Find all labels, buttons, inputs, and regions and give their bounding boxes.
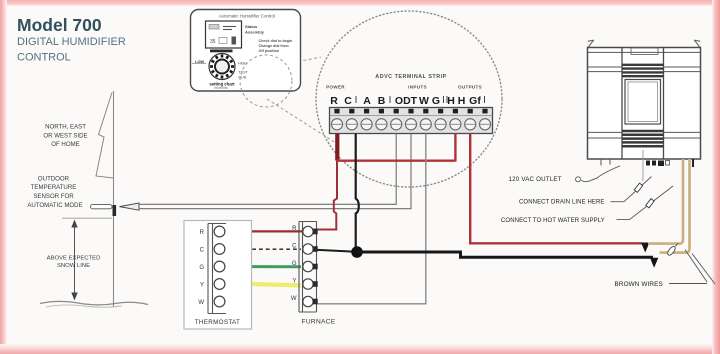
svg-text:THERMOSTAT: THERMOSTAT: [195, 319, 240, 326]
svg-text:A: A: [363, 95, 371, 107]
svg-text:C: C: [344, 95, 352, 107]
border frame top: [0, 0, 720, 6]
svg-text:G: G: [292, 261, 297, 267]
svg-text:Assembly: Assembly: [245, 30, 265, 35]
svg-text:ODT: ODT: [395, 95, 418, 107]
svg-text:C: C: [292, 244, 297, 250]
label north east west: [43, 124, 87, 148]
svg-text:CONNECT TO HOT WATER SUPPLY: CONNECT TO HOT WATER SUPPLY: [501, 218, 605, 224]
svg-text:Status: Status: [245, 24, 258, 29]
border frame bottom: [0, 344, 720, 354]
wire G green: [225, 265, 301, 268]
svg-text:W: W: [419, 95, 429, 107]
svg-text:Automatic Humidifier Control: Automatic Humidifier Control: [219, 14, 275, 19]
humidifier center panel: [625, 80, 661, 125]
zoom leader line lower: [267, 99, 336, 143]
border frame left: [0, 0, 7, 354]
thermostat screws: [214, 226, 225, 307]
svg-text:TEST: TEST: [239, 71, 249, 75]
terminal screws: [331, 119, 490, 130]
thermostat box: [184, 221, 252, 330]
terminal clamps: [334, 109, 487, 114]
svg-text:OUTPUTS: OUTPUTS: [458, 85, 482, 90]
zoom leader line upper: [271, 57, 321, 67]
device dial: [192, 62, 206, 64]
svg-text:more info: more info: [214, 86, 228, 90]
sensor wall anchor: [113, 205, 117, 216]
svg-text:ABOVE EXPECTED: ABOVE EXPECTED: [47, 255, 101, 261]
svg-text:35: 35: [210, 39, 216, 45]
svg-text:W: W: [291, 296, 297, 302]
svg-text:LOW: LOW: [195, 60, 204, 64]
svg-text:BROWN WIRES: BROWN WIRES: [615, 281, 663, 288]
svg-text:OF HOME: OF HOME: [51, 141, 79, 148]
label outdoor sensor: [27, 176, 82, 209]
snow line dimension: [62, 217, 112, 219]
svg-text:W: W: [198, 300, 204, 306]
svg-text:FURNACE: FURNACE: [302, 319, 336, 326]
wire R to furnace: [311, 161, 337, 230]
svg-text:R: R: [200, 230, 205, 236]
wire R thermostat-furnace: [225, 230, 312, 232]
power cord: [581, 166, 620, 182]
furnace screws: [303, 226, 313, 306]
wire W gray: [317, 134, 426, 304]
svg-text:G: G: [199, 265, 204, 271]
house wall: [113, 91, 115, 307]
wire Y yellow: [225, 283, 301, 285]
humidifier control U1 (device): [191, 10, 301, 108]
drain flag: [634, 183, 642, 192]
brown wire 2: [660, 159, 690, 253]
ground line: [40, 301, 148, 305]
svg-text:120 VAC OUTLET: 120 VAC OUTLET: [509, 176, 562, 183]
screw slots: [332, 123, 491, 125]
svg-text:TEMPERATURE: TEMPERATURE: [31, 184, 77, 191]
device zoom circle: [240, 55, 292, 107]
terminal strip TB1: [330, 108, 493, 134]
wire splice: [666, 241, 679, 256]
brown wires leader 2: [692, 254, 715, 285]
red wire arrowhead: [641, 243, 650, 253]
svg-text:OR WEST SIDE: OR WEST SIDE: [43, 132, 87, 139]
svg-text:CONNECT DRAIN LINE HERE: CONNECT DRAIN LINE HERE: [519, 200, 605, 206]
svg-text:OUTDOOR: OUTDOOR: [38, 176, 70, 183]
wire H jumper rise: [454, 134, 456, 162]
svg-text:CONTROL: CONTROL: [17, 52, 71, 64]
brown wire 1: [648, 159, 683, 244]
furnace letters: [291, 226, 297, 302]
brown wires leader 1: [685, 250, 707, 283]
water flag: [646, 199, 654, 208]
wire C furnace to junction: [313, 250, 353, 252]
black wire arrowhead: [650, 258, 658, 268]
terminal letters: [330, 95, 481, 107]
svg-text:POWER: POWER: [326, 85, 345, 90]
svg-text:SNOW LINE: SNOW LINE: [57, 263, 90, 269]
zoom circle (ADVC terminal strip bubble): [316, 11, 502, 187]
wall break marks: [96, 93, 114, 179]
svg-text:H: H: [458, 95, 466, 107]
humidifier drain stubs: [600, 159, 602, 166]
svg-text:NORTH, EAST: NORTH, EAST: [45, 124, 86, 131]
ODT wire 1: [139, 134, 397, 205]
svg-text:AUTOMATIC MODE: AUTOMATIC MODE: [27, 202, 82, 209]
junction node: [351, 246, 363, 258]
svg-text:Y: Y: [292, 279, 296, 285]
humidifier top band: [622, 65, 664, 76]
separator ticks: [356, 96, 485, 103]
svg-text:INPUTS: INPUTS: [408, 85, 427, 90]
furnace clamps: [313, 229, 318, 305]
thermostat letters: [198, 230, 204, 306]
thermostat terminal bar: [207, 224, 209, 314]
svg-text:DIGITAL HUMIDIFIER: DIGITAL HUMIDIFIER: [17, 36, 126, 48]
svg-text:Change dial from: Change dial from: [259, 44, 290, 48]
border frame right: [712, 0, 720, 354]
svg-text:R: R: [292, 226, 297, 232]
humidifier terminal block: [646, 161, 664, 167]
device display: [206, 21, 242, 48]
humidifier lower band: [622, 131, 664, 146]
svg-text:B: B: [378, 95, 386, 107]
furnace terminal bar: [299, 222, 317, 313]
svg-text:Off position: Off position: [259, 49, 280, 53]
svg-text:G: G: [432, 95, 440, 107]
humidifier unit: [588, 40, 701, 159]
wire C to humidifier: [357, 252, 654, 257]
svg-text:ADVC TERMINAL STRIP: ADVC TERMINAL STRIP: [375, 74, 446, 80]
wire R-H jumper horizontal: [336, 159, 455, 161]
svg-text:Check dial to begin: Check dial to begin: [259, 39, 294, 43]
svg-text:HIGH: HIGH: [238, 62, 247, 66]
ODT wire 2: [139, 134, 412, 209]
svg-text:Gf: Gf: [469, 95, 481, 107]
wire H to humidifier red: [470, 134, 642, 244]
wire C dashed thermostat-furnace: [225, 248, 301, 250]
wire R jumper drop (thick): [335, 134, 339, 161]
svg-text:R: R: [330, 95, 338, 107]
label snow line: [47, 255, 101, 269]
svg-text:Model 700: Model 700: [17, 15, 102, 35]
svg-text:H: H: [447, 95, 455, 107]
svg-text:SENSOR FOR: SENSOR FOR: [33, 193, 74, 200]
wire C drop with hop: [356, 134, 359, 248]
ODT wire arrowhead: [120, 203, 140, 210]
outdoor temperature sensor: [91, 205, 113, 209]
svg-text:Y: Y: [200, 283, 204, 289]
svg-text:C: C: [200, 248, 205, 254]
